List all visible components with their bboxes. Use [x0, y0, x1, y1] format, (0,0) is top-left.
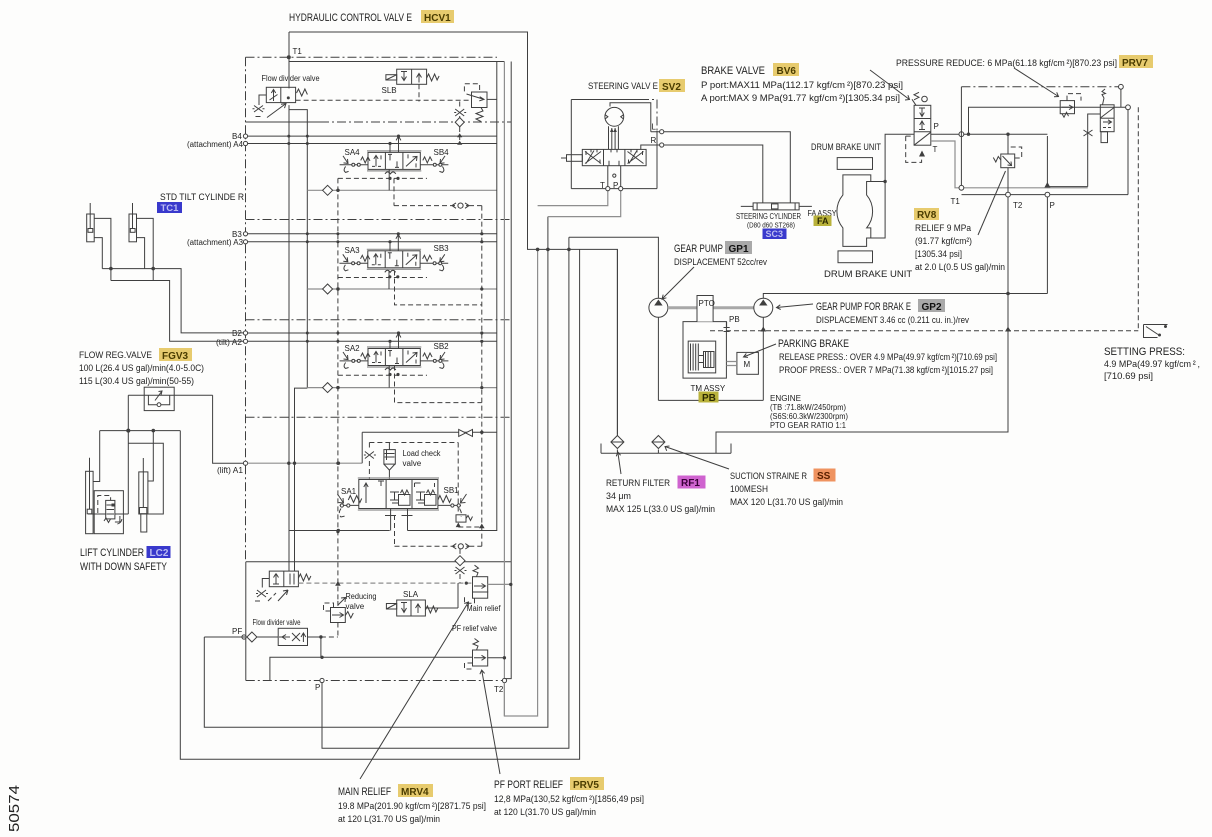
bottom U wire T2 to steering T column [504, 249, 537, 716]
svg-text:RETURN FILTER: RETURN FILTER [606, 478, 670, 489]
svg-text:Flow divider valve: Flow divider valve [253, 618, 301, 627]
svg-text:STEERING CYLINDER: STEERING CYLINDER [736, 212, 801, 221]
main relief valve MRV4 [465, 565, 488, 603]
carry-over diamond line section3 [307, 288, 497, 290]
badge MRV4 [398, 784, 433, 798]
valve section SA2/SB2 [340, 347, 449, 376]
wire SA4 drain to diamond line [388, 169, 390, 190]
svg-text:PRV5: PRV5 [573, 780, 599, 791]
wire right column down to P line [962, 110, 1129, 195]
svg-text:[710.69 psi]: [710.69 psi] [1104, 371, 1153, 382]
svg-text:SV2: SV2 [662, 82, 681, 93]
svg-text:P: P [1050, 201, 1055, 210]
badge SC3 [763, 229, 787, 240]
badge LC2 [147, 546, 171, 559]
svg-text:R: R [651, 136, 657, 145]
wire SA2 drain to diamond line [388, 366, 390, 388]
wire PF relief outlet [488, 657, 505, 659]
svg-text:STD TILT CYLINDE R: STD TILT CYLINDE R [160, 192, 244, 203]
bottom U wire PF to steering P column [204, 217, 548, 728]
svg-text:ENGINE: ENGINE [770, 394, 801, 403]
bottom U wire outer return [180, 249, 579, 759]
svg-text:Reducing: Reducing [346, 592, 377, 601]
port T2 right [1006, 192, 1011, 197]
svg-text:L: L [652, 123, 657, 132]
svg-text:115 L(30.4 US gal)/min(50-55): 115 L(30.4 US gal)/min(50-55) [79, 376, 194, 387]
load check valve [384, 443, 395, 480]
PF relief valve PRV5 [465, 639, 488, 670]
badge BV6 [773, 63, 799, 77]
wire PF line [204, 636, 321, 638]
junction dots on A1 line [287, 462, 290, 465]
svg-text:SB3: SB3 [434, 244, 450, 253]
GP1 outlet wire [569, 237, 659, 298]
load check valve dashed box [369, 443, 458, 516]
wire A3 line [248, 241, 497, 243]
ports B3 A3 [243, 232, 247, 236]
svg-text:Main relief: Main relief [467, 604, 502, 613]
wire T1 column [960, 87, 962, 186]
wire gate line to A1 [361, 432, 363, 463]
pilot dashed loop section2 bottom [395, 366, 482, 403]
lift cylinder 1 with down safety [86, 458, 124, 534]
pilot dash from SLB [418, 84, 420, 101]
wire A2 line [248, 340, 497, 342]
relief valve RV8 [993, 134, 1021, 192]
leader PRV7 to valve [1014, 68, 1059, 97]
pressure switch [1144, 325, 1168, 338]
wire SA3 drain to diamond line [388, 271, 390, 290]
boundary HCV1 left lower solid edge [245, 562, 247, 681]
steering T step wire [538, 191, 608, 206]
gerotor stem lines [609, 126, 619, 149]
pilot dashed loop section4 bottom [394, 178, 482, 205]
wire L to steering cylinder [664, 132, 791, 203]
leader GP2 to pump [777, 304, 814, 310]
badge PRV7 [1119, 55, 1153, 69]
throttle under diamond [455, 567, 467, 574]
port R [660, 143, 664, 147]
svg-text:STEERING VALV E: STEERING VALV E [588, 81, 658, 92]
wire tilt cyl bottom ports [94, 238, 144, 269]
steering cylinder SC3 [741, 203, 812, 210]
svg-text:12,8 MPa(130,52 kgf/cm ²)[1856: 12,8 MPa(130,52 kgf/cm ²)[1856,49 psi] [494, 794, 644, 805]
valve section SA1/SB1 [338, 478, 467, 517]
flow divider valve (top) [253, 87, 308, 117]
wire tilt header2 to A2 [111, 281, 244, 342]
svg-text:DISPLACEMENT 52cc/rev: DISPLACEMENT 52cc/rev [674, 257, 767, 268]
small relief at SB1 drain [456, 509, 473, 523]
wire GP2 outlet supply [763, 294, 1047, 299]
svg-text:TC1: TC1 [161, 203, 180, 214]
svg-text:SUCTION STRAINE R: SUCTION STRAINE R [730, 471, 807, 482]
right actuator SB1 [438, 504, 461, 506]
svg-text:RF1: RF1 [681, 478, 700, 489]
svg-text:P port:MAX11 MPa(112.17 kgf/cm: P port:MAX11 MPa(112.17 kgf/cm ²)[870.23… [701, 80, 903, 91]
bottom U wire P port to GP1 column [322, 237, 569, 748]
pilot dash under SA4 [338, 177, 427, 179]
svg-text:BV6: BV6 [777, 66, 797, 77]
junction dots on x481.8 [480, 232, 483, 235]
pilot dashed line y583.1 [298, 582, 472, 584]
badge FGV3 [159, 348, 192, 362]
return filter RF1 [611, 436, 624, 449]
check diamond on y561.8 [455, 556, 465, 566]
throttle on pilot [364, 452, 376, 459]
column x503.7 gray T2 return [503, 62, 505, 717]
svg-text:PF: PF [232, 627, 242, 636]
wire GP1 GP2 suction [658, 317, 763, 400]
wire brake T gray return [931, 141, 1088, 188]
badge FA [814, 216, 832, 227]
svg-text:SA1: SA1 [341, 487, 357, 496]
leader RF1 to filter [616, 452, 621, 474]
gerotor circle [605, 107, 624, 126]
svg-text:(S6S:60.3kW/2300rpm): (S6S:60.3kW/2300rpm) [770, 412, 848, 421]
badge SV2 [659, 79, 685, 93]
port P right [1045, 192, 1050, 197]
tank line [601, 444, 731, 454]
svg-text:Flow divider valve: Flow divider valve [262, 74, 321, 83]
svg-text:FA: FA [817, 216, 829, 226]
wire FGV3 right to A1 [213, 395, 244, 463]
check diamond on y122 [455, 118, 464, 127]
coupler symbol between sec1 and outlet [452, 544, 469, 549]
dashed parking brake pilot line [710, 330, 1138, 332]
spool [582, 149, 646, 165]
svg-text:PB: PB [729, 315, 740, 324]
ports B4 A4 [243, 134, 247, 138]
svg-text:100MESH: 100MESH [730, 484, 768, 495]
wire into cyl1 top [93, 431, 100, 482]
leader parking brake to clutch [744, 344, 777, 357]
tilt cylinder 2 [129, 203, 137, 242]
section separator y219.5 [246, 219, 512, 221]
svg-text:50574: 50574 [7, 785, 23, 832]
boundary T1 dash-dot line [246, 56, 498, 58]
svg-text:100 L(26.4 US gal)/min(4.0-5.0: 100 L(26.4 US gal)/min(4.0-5.0C) [79, 363, 204, 374]
leader GP1 to pump [662, 267, 694, 299]
section separator y319.8 [246, 319, 512, 321]
svg-text:valve: valve [346, 602, 365, 611]
wire lift branch to cyl2 bottom [128, 443, 163, 514]
svg-text:GEAR PUMP: GEAR PUMP [674, 243, 723, 255]
wire FGV3 feed line [128, 394, 212, 396]
PTO housing [683, 296, 726, 379]
svg-text:LC2: LC2 [150, 548, 169, 559]
svg-text:FLOW REG.VALVE: FLOW REG.VALVE [79, 350, 152, 361]
clutch symbol [724, 322, 730, 332]
port P bottom [320, 678, 324, 682]
svg-text:T2: T2 [1013, 201, 1023, 210]
wire brake P supply line [931, 133, 1048, 135]
left actuator SA1 [340, 504, 359, 506]
svg-text:PARKING BRAKE: PARKING BRAKE [778, 338, 849, 350]
svg-text:MAX 125 L(33.0 US gal)/min: MAX 125 L(33.0 US gal)/min [606, 504, 715, 515]
svg-text:at 2.0 L(0.5 US gal)/min: at 2.0 L(0.5 US gal)/min [915, 262, 1005, 273]
lift cylinder 2 [139, 458, 148, 532]
motor M box [726, 352, 758, 374]
svg-text:LIFT CYLINDER: LIFT CYLINDER [80, 547, 144, 559]
leader SS to strainer [665, 446, 729, 469]
svg-text:P: P [315, 683, 320, 692]
carry-over diamond line section2 [307, 387, 497, 389]
wire R to steering cylinder [664, 145, 763, 203]
svg-text:DRUM BRAKE UNIT: DRUM BRAKE UNIT [824, 269, 912, 280]
wire lift header [100, 430, 181, 432]
bottom ports [606, 187, 610, 191]
svg-text:RELIEF 9 MPa: RELIEF 9 MPa [915, 223, 972, 234]
wire A4 line [248, 143, 497, 145]
wire A1 line [248, 462, 363, 464]
svg-text:M: M [744, 360, 751, 369]
drive shaft [668, 306, 754, 309]
pilot dash under SA2 [338, 374, 427, 376]
drain line under SA1 [289, 62, 497, 531]
wire R into valve [641, 145, 660, 149]
svg-text:B2: B2 [232, 329, 242, 338]
badge PRV5 [570, 777, 604, 791]
port L [660, 130, 664, 134]
svg-text:(tilt) A2: (tilt) A2 [216, 338, 243, 347]
wire brake A port to drum brakes [871, 134, 914, 238]
svg-text:4.9 MPa(49.97 kgf/cm ² ,: 4.9 MPa(49.97 kgf/cm ² , [1104, 359, 1200, 370]
svg-text:SC3: SC3 [766, 229, 784, 239]
tilt cylinder 1 [87, 203, 95, 242]
ports B2 A2 [243, 331, 247, 335]
svg-text:valve: valve [403, 459, 422, 468]
wire PF to PF relief [270, 637, 473, 681]
pilot dashed loop section3 bottom [395, 271, 482, 305]
section separator y561.8 [246, 561, 511, 563]
svg-text:SB1: SB1 [444, 486, 460, 495]
relief valve top-right in HCV1 [464, 84, 496, 122]
badge GP1 [725, 241, 752, 255]
wire tilt header1 to B2 [102, 269, 243, 333]
node T1 top [287, 55, 291, 59]
svg-text:SB4: SB4 [434, 148, 450, 157]
wire B3 line [248, 233, 497, 235]
pilot dashed column x481.8 [481, 206, 483, 547]
coupler symbol between sec4 and sec3 [452, 203, 469, 208]
svg-text:34 μm: 34 μm [606, 491, 631, 502]
suction strainer SS [652, 436, 665, 449]
relief RV8 labels [914, 208, 939, 221]
junction dots on x337.9 [336, 189, 339, 192]
badge RF1 [678, 476, 706, 490]
svg-text:FGV3: FGV3 [162, 351, 189, 362]
svg-text:DRUM BRAKE UNIT: DRUM BRAKE UNIT [811, 142, 881, 153]
svg-text:MRV4: MRV4 [401, 787, 429, 798]
svg-text:SLB: SLB [382, 86, 397, 95]
gerotor internal loop to L [610, 103, 660, 132]
svg-text:P: P [613, 181, 618, 190]
junction dots on return header [536, 248, 540, 252]
gate valve symbol [459, 429, 473, 436]
wire FGV3 left down to lift circuit [123, 395, 128, 514]
svg-text:GEAR PUMP FOR BRAK E: GEAR PUMP FOR BRAK E [816, 301, 911, 313]
pilot dashed column x337.9 [337, 178, 339, 601]
section separator y122 [246, 121, 321, 123]
long pilot dashed line y101.5 [296, 99, 472, 101]
valve section SA4/SB4 [340, 151, 449, 180]
svg-text:P: P [934, 122, 939, 131]
steering P step wire [548, 191, 621, 217]
carry-over diamond line section4 [307, 189, 497, 191]
svg-text:T1: T1 [951, 197, 961, 206]
svg-text:SB2: SB2 [434, 342, 450, 351]
svg-text:RELEASE PRESS.: OVER 4.9 MPa(4: RELEASE PRESS.: OVER 4.9 MPa(49.97 kgf/c… [779, 352, 997, 363]
svg-text:T: T [933, 145, 938, 154]
HCV1 outer box and return header wire [289, 32, 617, 436]
badge GP2 [918, 299, 945, 313]
svg-text:(attachment) A4: (attachment) A4 [187, 140, 244, 149]
svg-text:GP1: GP1 [729, 244, 749, 255]
boundary HCV1 bottom dash-dot [246, 680, 505, 682]
throttle and check to y122 [454, 109, 466, 116]
leader PRV5 to PF relief [480, 670, 500, 774]
svg-text:DISPLACEMENT 3.46 cc (0.211 c: DISPLACEMENT 3.46 cc (0.211 cu. in.)/rev [816, 315, 969, 326]
svg-text:WITH DOWN SAFETY: WITH DOWN SAFETY [80, 561, 168, 573]
pilot dash under SA3 [338, 277, 427, 279]
boundary HCV1 left dash-dot edge [245, 57, 247, 562]
dashed column right [1137, 107, 1139, 330]
svg-text:19.8 MPa(201.90 kgf/cm ²)[2871: 19.8 MPa(201.90 kgf/cm ²)[2871.75 psi] [338, 801, 486, 812]
svg-text:SETTING PRESS:: SETTING PRESS: [1104, 346, 1185, 358]
svg-text:SS: SS [817, 471, 831, 482]
svg-text:PROOF PRESS.: OVER 7 MPa(71.38: PROOF PRESS.: OVER 7 MPa(71.38 kgf/cm ²)… [779, 365, 993, 376]
solenoid valve SLB [386, 69, 439, 84]
svg-text:A port:MAX 9 MPa(91.77 kgf/cm: A port:MAX 9 MPa(91.77 kgf/cm ²)[1305.34… [701, 93, 900, 104]
wire P column down [1046, 136, 1048, 294]
svg-text:MAIN RELIEF: MAIN RELIEF [338, 786, 391, 798]
svg-text:at 120 L(31.70 US gal)/min: at 120 L(31.70 US gal)/min [494, 807, 596, 818]
wire HCV1 inner top box [289, 61, 504, 63]
svg-text:PF relief valve: PF relief valve [452, 624, 497, 633]
wire SA3 feed stubs [390, 234, 401, 251]
port A1 [243, 461, 247, 465]
wire supply riser to PRV7 line [969, 107, 1129, 134]
flow divider valve 2 on PF line [278, 628, 307, 645]
svg-text:MAX 120 L(31.70 US gal)/min: MAX 120 L(31.70 US gal)/min [730, 497, 843, 508]
svg-text:PTO: PTO [699, 299, 715, 308]
badge TC1 [157, 202, 182, 214]
solenoid valve SLA [386, 600, 438, 616]
wire T2 return to tank [716, 197, 1008, 453]
svg-text:HCV1: HCV1 [424, 13, 451, 24]
wire B4 line [248, 135, 497, 137]
wire main relief outlet [488, 583, 511, 585]
dash-dot pilot top right [961, 86, 1118, 88]
svg-text:SLA: SLA [403, 590, 419, 599]
svg-text:PRV7: PRV7 [1122, 58, 1148, 69]
clutch pack TM [688, 341, 716, 373]
wire 2pos valve to P node [1049, 114, 1101, 187]
column x511.2 [505, 62, 511, 679]
wire B2 line [248, 332, 497, 334]
wire coupler to diamond [459, 549, 461, 556]
svg-text:at 120 L(31.70 US gal)/min: at 120 L(31.70 US gal)/min [338, 814, 440, 825]
port T2 bottom [502, 678, 506, 682]
crossing dots [287, 135, 290, 138]
svg-text:(TB :71.8kW/2450rpm): (TB :71.8kW/2450rpm) [770, 403, 846, 412]
svg-text:T: T [600, 181, 605, 190]
badge PB [699, 392, 719, 405]
2-position valve right [1100, 89, 1114, 143]
leader RV8 to valve [978, 171, 1006, 235]
svg-text:GP2: GP2 [922, 302, 942, 313]
wire flow divider to carry-over rail [289, 110, 307, 388]
leader MRV4 to main relief [360, 602, 469, 779]
svg-text:RV8: RV8 [917, 210, 937, 221]
svg-text:(attachment) A3: (attachment) A3 [187, 238, 244, 247]
svg-text:SA2: SA2 [345, 344, 361, 353]
svg-text:SA3: SA3 [345, 246, 361, 255]
wire tilt cyl top ports [94, 218, 153, 280]
svg-text:(91.77 kgf/cm²): (91.77 kgf/cm²) [915, 236, 972, 247]
badge HCV1 [421, 10, 454, 24]
valve section SA3/SB3 [339, 249, 448, 278]
svg-text:T1: T1 [293, 47, 303, 56]
reducing valve [324, 598, 354, 623]
svg-text:Load check: Load check [403, 449, 442, 458]
svg-text:PTO GEAR RATIO 1:1: PTO GEAR RATIO 1:1 [770, 421, 847, 430]
svg-text:T2: T2 [494, 685, 504, 694]
wire lift branch to cyl2 top [148, 431, 153, 481]
svg-text:HYDRAULIC CONTROL VALV E: HYDRAULIC CONTROL VALV E [289, 12, 412, 24]
svg-text:PB: PB [702, 393, 716, 404]
svg-text:PRESSURE REDUCE: 6 MPa(61.18 k: PRESSURE REDUCE: 6 MPa(61.18 kgf/cm ²)[8… [896, 58, 1117, 69]
pilot dashed loop section1 bottom [395, 515, 482, 546]
gate valve line above SA1 [362, 431, 497, 433]
svg-text:[1305.34 psi]: [1305.34 psi] [915, 249, 962, 260]
leader BV6 to valve [870, 70, 910, 100]
port PF [242, 635, 246, 639]
priority valve (bottom flow divider) [255, 571, 311, 601]
badge SS [814, 469, 836, 483]
wires below SA1 [391, 509, 408, 531]
section separator y417.3 [246, 416, 512, 418]
svg-text:PF PORT RELIEF: PF PORT RELIEF [494, 779, 563, 791]
wire SA4 feed stubs [390, 136, 401, 152]
wire SA2 feed stubs [390, 333, 401, 349]
svg-text:(lift) A1: (lift) A1 [217, 466, 244, 475]
feed pair into priority valve [289, 388, 307, 571]
svg-text:SA4: SA4 [345, 148, 361, 157]
PF check diamond [247, 632, 257, 642]
svg-text:BRAKE VALVE: BRAKE VALVE [701, 65, 765, 77]
gear pump GP2 [754, 298, 773, 317]
wire HCV1 left feed column x289 upper [288, 32, 290, 463]
